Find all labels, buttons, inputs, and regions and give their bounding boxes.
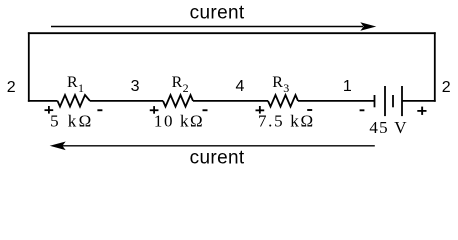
label + (battery positive) [417,107,426,115]
svg-text:1: 1 [343,78,352,95]
label + (R3 left polarity) [256,106,265,114]
wire: top conductor [28,32,436,34]
svg-text:curent: curent [190,148,245,169]
battery long plate 1 [384,86,386,116]
svg-text:2: 2 [7,79,16,96]
wire: R3 to battery [298,100,375,102]
bottom current annotation arrow [51,142,374,149]
svg-text:7.5 kΩ: 7.5 kΩ [258,112,315,131]
svg-text:5 kΩ: 5 kΩ [50,112,93,131]
battery short plate 1 [374,95,376,107]
resistor R1 [58,95,91,107]
wire: right vertical conductor [434,32,436,102]
wire: left vertical conductor [28,32,30,102]
label - (R3 right polarity) [307,109,312,111]
wire: left corner to R1 [28,100,58,102]
label - (R1 right polarity) [97,109,102,111]
wire: R2 to R3 [193,100,268,102]
resistor R2 [163,95,193,107]
svg-text:45 V: 45 V [369,118,407,137]
label - (R2 right polarity) [203,109,208,111]
wire: battery to right corner [402,100,436,102]
battery B1 45 V [375,86,403,116]
top current annotation arrow [51,23,375,30]
battery long plate 2 [401,86,403,116]
resistor R3 [268,95,298,107]
svg-text:2: 2 [442,79,451,96]
wire: R1 to R2 [90,100,163,102]
label + (R1 left polarity) [45,106,54,114]
svg-text:curent: curent [190,3,245,24]
label - (battery negative) [360,109,365,111]
battery short plate 2 [392,95,394,107]
svg-text:4: 4 [236,78,245,95]
label + (R2 left polarity) [150,106,159,114]
svg-text:3: 3 [131,78,140,95]
svg-text:10 kΩ: 10 kΩ [154,112,204,131]
